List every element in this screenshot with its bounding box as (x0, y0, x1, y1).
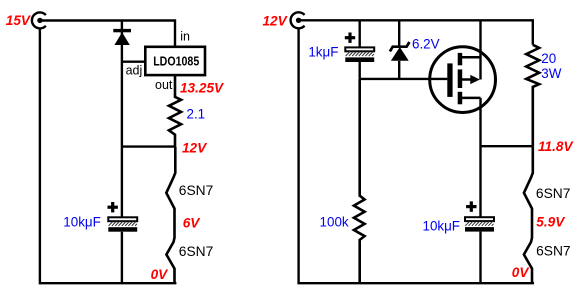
svg-text:10kμF: 10kμF (63, 214, 101, 229)
svg-text:1kμF: 1kμF (308, 45, 338, 60)
svg-text:6SN7: 6SN7 (179, 244, 214, 259)
svg-text:out: out (155, 78, 173, 92)
svg-text:6V: 6V (183, 215, 202, 230)
svg-text:in: in (180, 29, 190, 43)
svg-text:LDO1085: LDO1085 (153, 55, 200, 69)
svg-text:5.9V: 5.9V (536, 215, 566, 230)
svg-text:3W: 3W (541, 66, 561, 81)
svg-text:10kμF: 10kμF (423, 218, 461, 233)
svg-text:6SN7: 6SN7 (536, 244, 571, 259)
svg-text:15V: 15V (6, 13, 32, 28)
svg-text:12V: 12V (182, 140, 208, 155)
svg-text:12V: 12V (263, 14, 289, 29)
svg-text:0V: 0V (512, 265, 531, 280)
svg-text:11.8V: 11.8V (538, 139, 574, 154)
svg-text:0V: 0V (151, 267, 170, 282)
svg-text:6.2V: 6.2V (412, 36, 440, 51)
svg-text:2.1: 2.1 (187, 106, 206, 121)
svg-text:13.25V: 13.25V (180, 81, 225, 96)
svg-text:6SN7: 6SN7 (179, 183, 214, 198)
svg-text:100k: 100k (320, 214, 349, 229)
svg-text:adj: adj (126, 64, 143, 78)
svg-text:6SN7: 6SN7 (536, 186, 571, 201)
svg-text:20: 20 (541, 51, 556, 66)
